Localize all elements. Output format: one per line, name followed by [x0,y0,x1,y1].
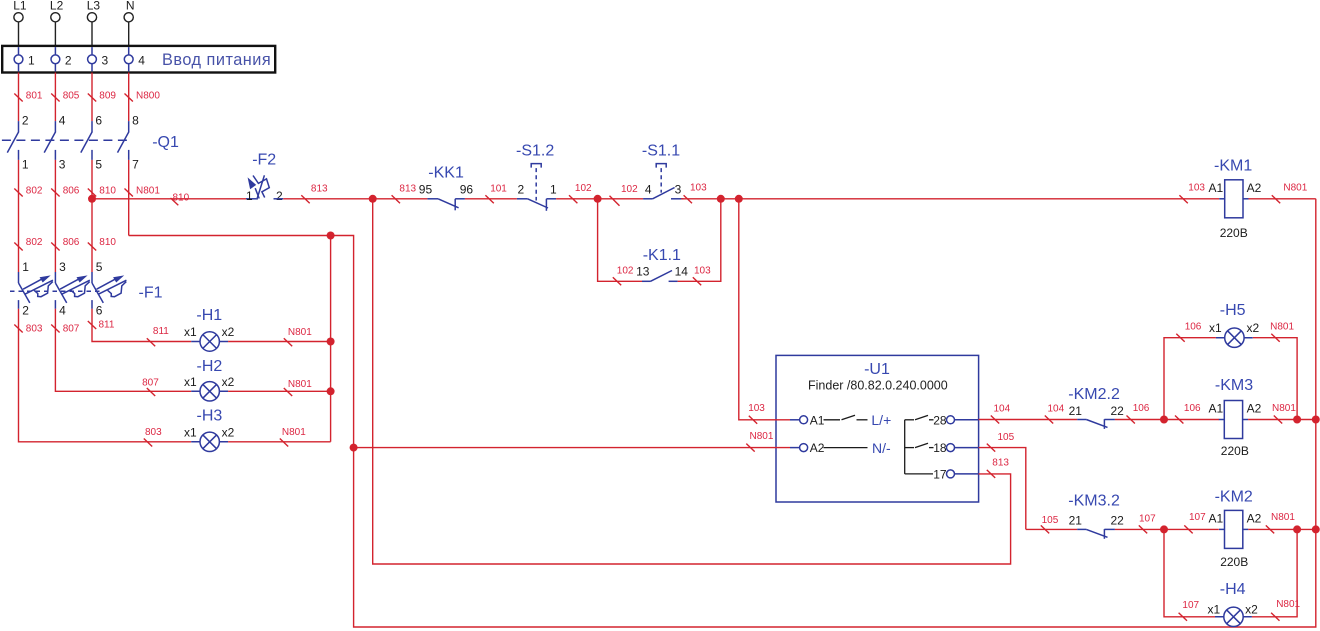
svg-text:N801: N801 [750,431,774,442]
svg-text:1: 1 [246,189,253,203]
svg-text:5: 5 [95,158,102,172]
wire 810 [91,160,93,272]
wire N801 (KM1 to right rail) [1249,198,1316,200]
relay U1 (Finder) box [776,355,979,502]
wire 107 (KM3.2 to KM2) [1115,528,1219,530]
wire 103 (K1.1 branch right) [678,199,721,281]
wire 105 (pin 18 out) [979,448,1026,530]
svg-text:A1: A1 [810,413,825,427]
node 106 junction [1160,416,1168,424]
motor breaker F1 [10,290,100,292]
svg-text:103: 103 [1188,183,1205,194]
svg-text:-KM3: -KM3 [1215,377,1253,394]
svg-text:N801: N801 [1276,599,1300,610]
svg-text:17: 17 [933,467,947,481]
wire 103 (S1.1 to KM1) [681,198,1219,200]
svg-text:105: 105 [1042,515,1059,526]
svg-text:2: 2 [65,53,72,67]
node N801 branch [327,232,335,240]
svg-text:8: 8 [132,114,139,128]
svg-text:810: 810 [99,186,116,197]
svg-text:802: 802 [26,237,43,248]
svg-text:-H1: -H1 [196,307,222,324]
wire 802 [18,160,20,272]
svg-text:813: 813 [311,183,328,194]
svg-text:802: 802 [26,186,43,197]
svg-text:807: 807 [63,324,80,335]
svg-text:807: 807 [142,378,159,389]
svg-text:-F1: -F1 [139,285,163,302]
svg-text:2: 2 [276,189,283,203]
wire 107 (H4 branch) [1164,529,1215,616]
svg-text:103: 103 [690,183,707,194]
U1 output pins 28/18/17 [904,420,906,474]
svg-text:N801: N801 [288,327,312,338]
node H4 return [1293,525,1301,533]
wire 103 (to U1 A1) [739,199,790,420]
node N801/A2 [350,444,358,452]
wire 809 [91,73,93,122]
wire 806 label [51,243,59,251]
svg-text:N801: N801 [282,427,306,438]
svg-text:N801: N801 [1283,183,1307,194]
svg-text:104: 104 [1048,403,1065,414]
svg-text:811: 811 [153,326,169,337]
svg-text:3: 3 [59,158,66,172]
svg-text:5: 5 [96,260,103,274]
svg-text:14: 14 [675,265,689,279]
svg-text:801: 801 [26,91,43,102]
node 813 junction [369,195,377,203]
U1 pin A1 [800,416,808,424]
svg-text:106: 106 [1185,321,1202,332]
svg-text:22: 22 [1111,404,1125,418]
wire N801 (KM2 to rails) [1248,528,1316,530]
svg-text:L2: L2 [50,0,64,13]
wire N801 branch to lamps H1-H3 [330,236,332,442]
svg-text:809: 809 [99,91,116,102]
svg-text:220В: 220В [1220,226,1248,240]
svg-text:-KM1: -KM1 [1214,157,1252,174]
svg-text:3: 3 [59,260,66,274]
svg-text:810: 810 [99,237,116,248]
svg-text:A1: A1 [1209,181,1224,195]
svg-text:107: 107 [1189,512,1206,523]
svg-text:105: 105 [998,432,1015,443]
svg-text:N801: N801 [1271,512,1295,523]
svg-text:101: 101 [490,183,507,194]
node H5 return [1293,416,1301,424]
wire N801 (N column to right, down to lamps/U1/bottom rail) [129,236,1316,628]
svg-text:-KM2: -KM2 [1215,489,1253,506]
svg-text:102: 102 [617,266,634,277]
svg-text:107: 107 [1182,600,1199,611]
svg-text:13: 13 [636,265,650,279]
svg-text:A2: A2 [810,441,825,455]
svg-text:L3: L3 [87,0,101,13]
svg-text:806: 806 [63,186,80,197]
svg-text:805: 805 [63,91,80,102]
svg-text:4: 4 [59,304,66,318]
node 107 junction [1160,525,1168,533]
svg-text:22: 22 [1111,514,1125,528]
wire N800 [128,73,130,122]
terminal block pin 4 [128,47,130,55]
svg-text:N: N [126,0,135,13]
svg-text:28: 28 [933,413,947,427]
wire 104 (pin 28 out) [979,419,1078,421]
svg-text:x1: x1 [1209,321,1222,335]
wire 102 (K1.1 branch left) [598,199,642,281]
svg-text:1: 1 [28,53,35,67]
svg-text:-U1: -U1 [864,361,890,378]
svg-text:803: 803 [145,427,162,438]
svg-text:810: 810 [173,192,190,203]
svg-text:21: 21 [1069,404,1083,418]
wire 811 (F1 pole3 down to H1) [92,309,191,342]
svg-text:3: 3 [102,53,109,67]
wire 805 [54,73,56,122]
svg-text:103: 103 [748,403,765,414]
svg-text:18: 18 [933,441,947,455]
svg-text:x1: x1 [1208,602,1221,616]
svg-text:-H5: -H5 [1220,302,1246,319]
wire 801 [18,73,20,122]
wire 813 (F2 to KK1) [283,198,427,200]
svg-text:-S1.2: -S1.2 [516,143,554,160]
node 102 junction [594,195,602,203]
node H2/N801 [327,387,335,395]
svg-text:-K1.1: -K1.1 [643,247,681,264]
svg-text:-KK1: -KK1 [428,165,464,182]
svg-text:x1: x1 [184,426,197,440]
svg-text:96: 96 [460,182,474,196]
wire N801 (KM3 to rails) [1248,419,1316,421]
wire 106 (KM2.2 to KM3) [1115,419,1219,421]
svg-text:L/+: L/+ [871,412,891,428]
svg-text:813: 813 [992,457,1009,468]
svg-text:N/-: N/- [872,440,891,456]
terminal block X1 (Ввод питания) [2,46,275,73]
wire 807 (F1 pole2 down to H2) [55,309,191,392]
svg-text:2: 2 [22,114,29,128]
svg-text:7: 7 [132,158,139,172]
wire 810 label [88,243,96,251]
wire N801 (H4 return) [1252,529,1297,616]
svg-text:6: 6 [96,304,103,318]
svg-text:N801: N801 [1270,321,1294,332]
breaker Q1 [2,139,132,141]
svg-text:-H4: -H4 [1220,581,1246,598]
svg-text:L1: L1 [13,0,27,13]
svg-text:813: 813 [399,183,416,194]
svg-text:-F2: -F2 [252,151,276,168]
svg-text:106: 106 [1133,403,1150,414]
svg-text:4: 4 [138,53,145,67]
terminal block pin 2 [54,47,56,55]
node 103 junction (K1.1 return) [717,195,725,203]
wire 806 [54,160,56,272]
wire 106 (H5 branch) [1164,338,1216,420]
svg-text:x2: x2 [222,426,235,440]
svg-text:220В: 220В [1220,555,1248,569]
svg-text:-Q1: -Q1 [152,134,179,151]
U1 pin A2 [800,444,808,452]
wire N801 right rail [1315,199,1317,530]
svg-text:x1: x1 [184,375,197,389]
svg-text:803: 803 [26,324,43,335]
wire 101 [465,198,517,200]
svg-text:104: 104 [994,403,1011,414]
svg-text:N800: N800 [136,91,160,102]
svg-text:A2: A2 [1247,512,1262,526]
svg-text:1: 1 [550,183,557,197]
node N801/KM2 [1312,525,1320,533]
svg-text:-H3: -H3 [197,408,223,425]
terminal block pin 1 [18,47,20,55]
wire 803 (F1 pole1 down to H3) [19,309,192,442]
svg-text:106: 106 [1184,403,1201,414]
svg-text:102: 102 [621,184,638,195]
svg-text:107: 107 [1139,514,1156,525]
node 103 junction (to U1 A1) [735,195,743,203]
svg-text:A1: A1 [1209,512,1224,526]
svg-text:A2: A2 [1247,181,1262,195]
svg-text:2: 2 [22,304,29,318]
svg-text:N801: N801 [136,186,160,197]
svg-text:A1: A1 [1209,401,1224,415]
wire 802 label [14,243,22,251]
svg-text:Finder /80.82.0.240.0000: Finder /80.82.0.240.0000 [808,379,948,393]
wire 813 (pin 17 out, back to main line) [373,199,1011,564]
svg-text:806: 806 [63,237,80,248]
svg-text:N801: N801 [288,379,312,390]
svg-text:x1: x1 [184,325,197,339]
terminal block pin 3 [91,47,93,55]
svg-text:1: 1 [22,158,29,172]
svg-text:95: 95 [419,182,433,196]
svg-text:x2: x2 [1245,602,1258,616]
svg-text:x2: x2 [222,325,235,339]
svg-text:-KM3.2: -KM3.2 [1068,492,1120,509]
svg-text:x2: x2 [1247,321,1260,335]
svg-text:Ввод питания: Ввод питания [162,51,271,69]
svg-text:811: 811 [99,320,115,331]
svg-text:-S1.1: -S1.1 [642,143,680,160]
svg-text:1: 1 [22,260,29,274]
svg-text:A2: A2 [1247,401,1262,415]
node N801/KM3 [1312,416,1320,424]
svg-text:3: 3 [675,182,682,196]
svg-text:102: 102 [575,183,592,194]
svg-text:4: 4 [645,182,652,196]
svg-text:-KM2.2: -KM2.2 [1068,386,1120,403]
svg-text:103: 103 [694,266,711,277]
wire N801 [128,160,130,236]
svg-text:4: 4 [59,114,66,128]
wire 810 main line [92,198,247,200]
node H1/N801 [327,338,335,346]
svg-text:21: 21 [1069,514,1083,528]
svg-text:-H2: -H2 [197,358,223,375]
svg-text:2: 2 [518,183,525,197]
wire N801 (H5 return) [1253,338,1297,420]
svg-text:N801: N801 [1272,403,1296,414]
node 810/main-line junction [88,195,96,203]
svg-text:6: 6 [95,114,102,128]
wire 102 (S1.2 to S1.1) [556,198,643,200]
svg-text:x2: x2 [222,375,235,389]
svg-text:220В: 220В [1221,444,1249,458]
